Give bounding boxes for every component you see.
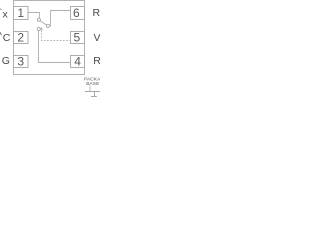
wire contact B up and to pin 6 [49,11,70,27]
svg-text:5: 5 [74,31,81,45]
svg-text:BASE: BASE [86,81,99,87]
pin 6 box [71,7,85,20]
pin 2 box [14,32,29,44]
base lower line [91,96,97,98]
pin 4 box [71,56,85,68]
wire pin1 to contact A [28,13,40,19]
svg-text:R: R [93,7,101,19]
pin 3 box [14,56,29,68]
contact A circle [37,18,40,21]
package base wire [85,91,100,93]
svg-text:G: G [2,55,10,67]
leader line from note [89,85,91,91]
svg-text:V: V [94,32,101,44]
wire contact C down and to pin 4 [39,31,71,63]
pin 1 box [14,7,29,20]
svg-text:x: x [3,9,9,21]
svg-text:4: 4 [74,54,81,68]
cut letter fragment above label 1 [0,9,2,10]
contact B circle [46,24,49,27]
pin 5 box [71,32,85,44]
svg-text:3: 3 [17,54,24,68]
pin 2 label (cut text "C" with fragment) [0,32,2,35]
base stub [93,92,95,97]
contact C circle [37,27,40,30]
svg-text:2: 2 [17,31,24,45]
actuation dashed link to pin 5 [42,30,71,41]
relay body outline [14,1,85,75]
svg-text:6: 6 [73,6,80,20]
svg-text:C: C [3,32,11,44]
actuation arrowhead [41,27,43,30]
svg-text:R: R [93,55,100,67]
svg-text:1: 1 [17,6,24,20]
switch blade A to B [40,21,47,25]
